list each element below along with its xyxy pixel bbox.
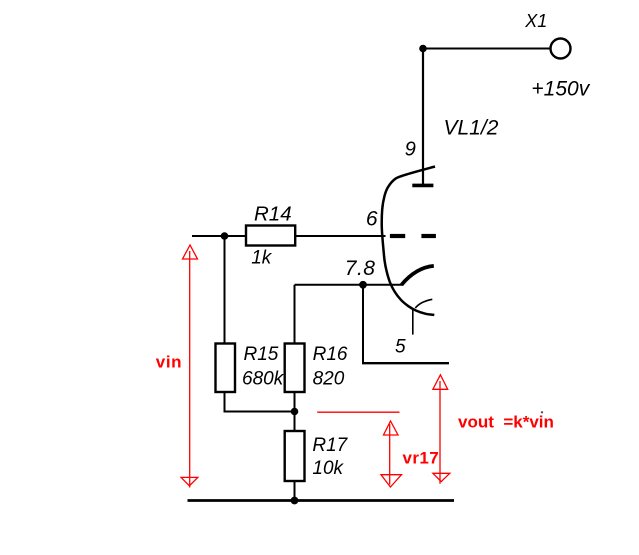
svg-text:R16: R16 [313,344,348,365]
svg-text:680k: 680k [242,368,285,389]
svg-text:820: 820 [313,368,345,389]
svg-text:vr17: vr17 [403,448,440,467]
svg-text:vout =k*vin: vout =k*vin [458,413,554,432]
svg-text:7.8: 7.8 [345,257,376,280]
svg-text:X1: X1 [524,11,547,31]
svg-text:R17: R17 [312,435,348,456]
svg-text:R14: R14 [254,202,292,225]
svg-text:R15: R15 [244,344,279,365]
svg-text:5: 5 [395,337,406,358]
svg-text:1k: 1k [251,247,273,268]
svg-text:10k: 10k [312,458,344,479]
svg-text:vin: vin [156,353,182,372]
svg-text:+150v: +150v [531,78,590,101]
svg-text:9: 9 [405,139,416,161]
svg-text:VL1/2: VL1/2 [444,117,499,140]
svg-text:6: 6 [366,207,378,230]
